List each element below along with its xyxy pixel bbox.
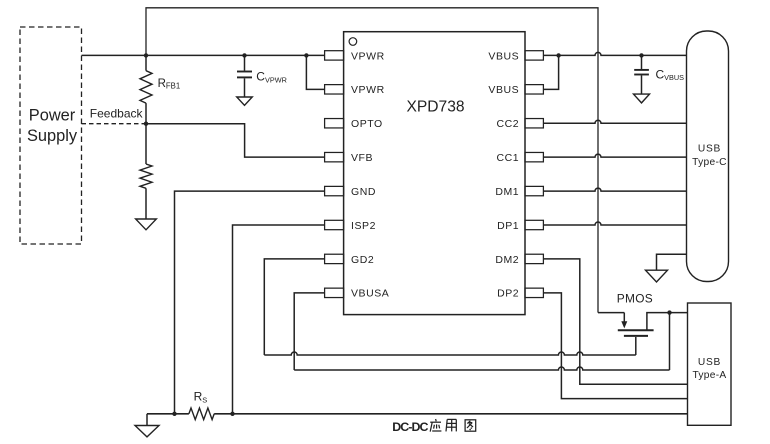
svg-text:VBUS: VBUS (488, 50, 519, 62)
svg-text:VPWR: VPWR (351, 84, 385, 96)
svg-text:Type-A: Type-A (692, 370, 726, 381)
svg-text:VBUS: VBUS (488, 84, 519, 96)
svg-text:Power: Power (29, 107, 76, 125)
svg-text:DP2: DP2 (497, 288, 519, 300)
svg-text:Supply: Supply (27, 127, 78, 145)
svg-text:DP1: DP1 (497, 220, 519, 232)
svg-text:DC-DC: DC-DC (392, 420, 428, 434)
svg-text:PMOS: PMOS (617, 292, 653, 306)
svg-text:VBUSA: VBUSA (351, 288, 389, 300)
svg-text:DM1: DM1 (495, 186, 519, 198)
svg-text:Type-C: Type-C (692, 157, 727, 168)
svg-text:VFB: VFB (351, 152, 373, 164)
svg-text:ISP2: ISP2 (351, 220, 376, 232)
svg-text:USB: USB (698, 357, 721, 368)
svg-text:XPD738: XPD738 (406, 99, 464, 116)
svg-text:DM2: DM2 (495, 254, 519, 266)
svg-text:OPTO: OPTO (351, 118, 383, 130)
svg-text:CC1: CC1 (497, 152, 520, 164)
svg-text:GD2: GD2 (351, 254, 374, 266)
svg-text:VPWR: VPWR (351, 50, 385, 62)
svg-text:USB: USB (698, 144, 721, 155)
svg-text:GND: GND (351, 186, 376, 198)
svg-text:CC2: CC2 (497, 118, 520, 130)
svg-text:Feedback: Feedback (90, 107, 144, 121)
